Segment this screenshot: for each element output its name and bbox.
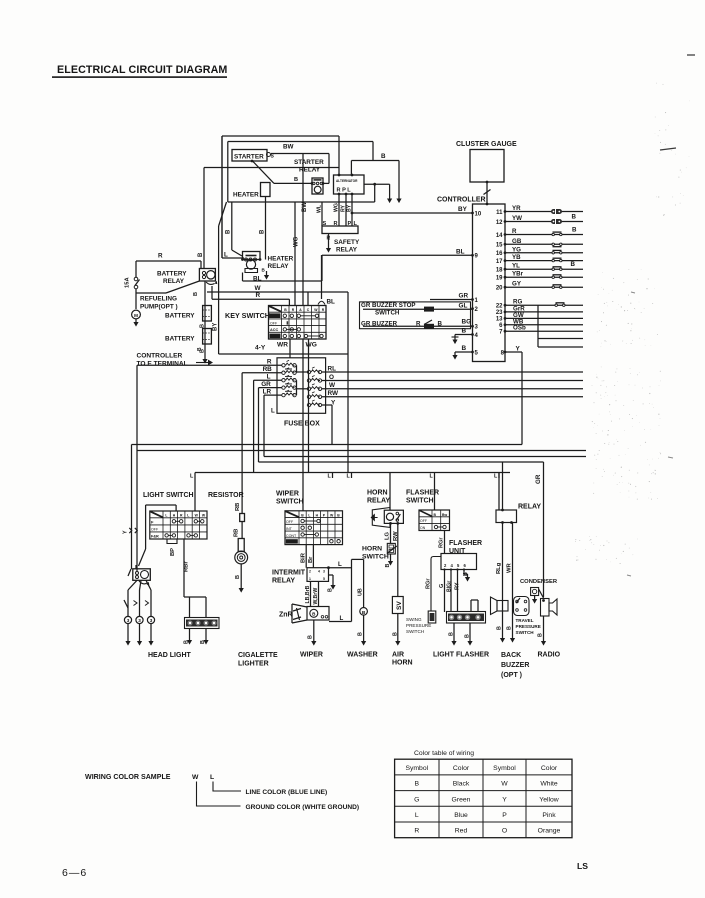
svg-text:FLASHER: FLASHER bbox=[449, 540, 482, 547]
ground (light flasher 2) bbox=[467, 641, 472, 646]
svg-text:B: B bbox=[362, 610, 366, 616]
svg-text:6—6: 6—6 bbox=[62, 867, 87, 879]
svg-text:3: 3 bbox=[150, 618, 153, 623]
svg-text:BATTERY: BATTERY bbox=[165, 336, 195, 343]
svg-text:4: 4 bbox=[451, 563, 454, 568]
svg-text:GB: GB bbox=[512, 238, 522, 245]
svg-text:R: R bbox=[158, 253, 163, 260]
node: coupler marks bbox=[129, 528, 131, 533]
svg-text:YBr: YBr bbox=[512, 271, 524, 278]
svg-text:3: 3 bbox=[323, 570, 325, 574]
svg-text:R P L: R P L bbox=[337, 188, 352, 194]
svg-text:OFF: OFF bbox=[286, 520, 294, 524]
svg-text:BiR: BiR bbox=[301, 552, 307, 563]
svg-text:STARTER: STARTER bbox=[234, 153, 264, 160]
svg-text:RGr: RGr bbox=[426, 578, 432, 589]
ground (battery minus) bbox=[202, 359, 207, 364]
svg-text:WG: WG bbox=[294, 236, 300, 247]
svg-text:15A: 15A bbox=[125, 277, 131, 288]
svg-text:B: B bbox=[198, 252, 204, 257]
svg-text:B: B bbox=[235, 575, 241, 579]
svg-text:B: B bbox=[312, 612, 316, 617]
svg-text:23: 23 bbox=[496, 310, 503, 316]
fuse F1..F5 left column bbox=[282, 364, 285, 367]
svg-text:AIR: AIR bbox=[392, 652, 404, 659]
svg-text:5: 5 bbox=[475, 350, 479, 356]
svg-text:INTERMIT: INTERMIT bbox=[272, 570, 306, 577]
svg-text:19: 19 bbox=[496, 276, 503, 282]
wire left long verticals bbox=[131, 445, 133, 570]
svg-text:YB: YB bbox=[512, 254, 521, 261]
wire bus 2 bbox=[137, 450, 586, 452]
wiper motor M-WIPER bbox=[292, 604, 307, 607]
svg-text:2: 2 bbox=[475, 307, 479, 313]
wire bus right extra bbox=[537, 305, 539, 347]
wire BP below light switch bbox=[167, 539, 177, 544]
wire WG key switch down bbox=[302, 339, 304, 511]
svg-text:L: L bbox=[494, 474, 498, 480]
svg-text:Color: Color bbox=[541, 765, 558, 772]
solenoid valve SV bbox=[392, 597, 403, 614]
wire B intermit relay ground bbox=[329, 574, 334, 576]
svg-text:HORN: HORN bbox=[362, 546, 382, 553]
wire B wiper motor ground bbox=[313, 620, 315, 641]
wire YB pin line bbox=[505, 260, 583, 262]
svg-text:ON: ON bbox=[420, 526, 426, 530]
svg-text:BATTERY: BATTERY bbox=[165, 313, 195, 320]
svg-text:22: 22 bbox=[496, 304, 503, 310]
svg-text:W: W bbox=[202, 514, 206, 518]
ground (intermit relay) bbox=[330, 585, 335, 590]
wire YG pin line bbox=[505, 252, 583, 254]
svg-text:H: H bbox=[173, 514, 176, 518]
svg-text:W,BrW: W,BrW bbox=[313, 588, 319, 605]
svg-text:RELAY: RELAY bbox=[163, 278, 185, 285]
ground (heater relay B) bbox=[264, 275, 269, 280]
svg-text:B: B bbox=[572, 226, 577, 233]
svg-text:W: W bbox=[329, 382, 336, 389]
svg-text:CONDENSER: CONDENSER bbox=[520, 579, 558, 585]
svg-text:HEAD LIGHT: HEAD LIGHT bbox=[148, 652, 192, 659]
svg-text:OFF: OFF bbox=[151, 527, 159, 531]
svg-text:WIPER: WIPER bbox=[300, 652, 323, 659]
wire BL heater relay to controller pin9 bbox=[242, 273, 244, 282]
wire RB fuse input long vertical to resistor bbox=[242, 372, 282, 374]
svg-text:GROUND COLOR (WHITE GROUND): GROUND COLOR (WHITE GROUND) bbox=[246, 804, 360, 811]
svg-text:L: L bbox=[347, 474, 351, 480]
wire L fuse input vertical bbox=[254, 379, 282, 381]
svg-text:RY: RY bbox=[455, 582, 461, 590]
svg-text:10: 10 bbox=[475, 211, 482, 217]
svg-text:B: B bbox=[262, 268, 266, 273]
ground (socket 2) bbox=[203, 640, 208, 645]
wire GY pin line bbox=[505, 286, 583, 288]
svg-text:ZnR: ZnR bbox=[279, 612, 293, 619]
svg-text:Green: Green bbox=[452, 796, 471, 803]
starter motor STARTER bbox=[232, 150, 267, 162]
svg-text:HORN: HORN bbox=[367, 490, 388, 497]
wire RGr to swing pressure switch bbox=[431, 557, 441, 612]
svg-text:WR: WR bbox=[277, 342, 288, 349]
wire WG drop to key switch bbox=[294, 202, 296, 306]
svg-text:B: B bbox=[538, 633, 544, 637]
svg-text:RELAY: RELAY bbox=[299, 167, 321, 174]
svg-text:WG: WG bbox=[306, 342, 317, 349]
svg-text:L: L bbox=[210, 774, 214, 781]
svg-text:WR: WR bbox=[507, 563, 513, 573]
svg-text:R: R bbox=[180, 514, 183, 518]
svg-text:CONTROLLER: CONTROLLER bbox=[137, 353, 183, 360]
svg-text:REFUELING: REFUELING bbox=[140, 296, 177, 303]
svg-text:15: 15 bbox=[496, 243, 503, 249]
svg-text:13: 13 bbox=[496, 317, 503, 323]
radio RADIO bbox=[541, 599, 550, 617]
svg-text:OFF: OFF bbox=[420, 519, 427, 523]
svg-text:B: B bbox=[572, 213, 577, 220]
svg-text:B: B bbox=[462, 345, 467, 352]
svg-text:B: B bbox=[260, 229, 266, 234]
back buzzer BZ2 bbox=[497, 601, 508, 612]
svg-text:BW: BW bbox=[283, 144, 294, 151]
svg-text:RW: RW bbox=[328, 390, 339, 397]
alternator U-ALT bbox=[334, 175, 365, 194]
svg-text:L: L bbox=[308, 513, 310, 517]
ground (head light 128) bbox=[125, 641, 130, 646]
svg-text:L: L bbox=[267, 373, 271, 380]
wire bottom boundary bbox=[195, 472, 510, 474]
svg-text:CONTROLLER: CONTROLLER bbox=[437, 197, 486, 204]
svg-text:SWITCH: SWITCH bbox=[516, 630, 535, 635]
ground (head light 139.5) bbox=[137, 641, 142, 646]
ground (safety relay) bbox=[326, 248, 331, 253]
svg-text:4-Y: 4-Y bbox=[255, 345, 266, 352]
svg-text:R: R bbox=[512, 228, 517, 235]
wire LG RW horn relay down bbox=[390, 523, 392, 543]
wire GB pin line bbox=[505, 243, 583, 245]
svg-text:16: 16 bbox=[496, 251, 503, 257]
svg-text:B: B bbox=[415, 781, 420, 788]
svg-text:O: O bbox=[329, 374, 334, 381]
svg-text:L: L bbox=[271, 408, 275, 415]
svg-text:LIGHTER: LIGHTER bbox=[238, 661, 269, 668]
svg-text:RELAY: RELAY bbox=[518, 504, 541, 511]
svg-text:HEATER: HEATER bbox=[233, 192, 259, 199]
cigarette lighter CL bbox=[238, 539, 244, 552]
svg-text:BUZZER: BUZZER bbox=[501, 662, 529, 669]
svg-text:B: B bbox=[393, 632, 399, 636]
svg-text:LIGHT SWITCH: LIGHT SWITCH bbox=[143, 492, 194, 499]
svg-text:RLg: RLg bbox=[496, 562, 502, 574]
svg-text:W: W bbox=[192, 774, 199, 781]
svg-text:12: 12 bbox=[496, 220, 503, 226]
wire RGr flasher switch down bbox=[444, 531, 446, 554]
svg-text:HORN: HORN bbox=[392, 660, 413, 667]
svg-text:LINE COLOR (BLUE LINE): LINE COLOR (BLUE LINE) bbox=[246, 789, 328, 796]
svg-text:B: B bbox=[497, 626, 503, 630]
ground (cig lighter) bbox=[239, 588, 244, 593]
wire B down to heater relay bbox=[231, 202, 233, 250]
svg-text:Orange: Orange bbox=[538, 828, 561, 835]
svg-text:B: B bbox=[197, 347, 203, 351]
wire YW pin line bbox=[505, 221, 583, 223]
svg-text:BL: BL bbox=[456, 248, 465, 255]
ground (air horn) bbox=[395, 641, 400, 646]
svg-text:BG: BG bbox=[462, 319, 472, 326]
svg-text:Y: Y bbox=[123, 530, 129, 534]
wire YR pin line bbox=[505, 211, 583, 213]
svg-text:CLUSTER GAUGE: CLUSTER GAUGE bbox=[456, 141, 517, 148]
wire B alternator side to grounds bbox=[373, 183, 376, 186]
svg-text:Y: Y bbox=[502, 796, 507, 803]
wire R pin line bbox=[505, 234, 583, 236]
svg-text:PUMP(OPT ): PUMP(OPT ) bbox=[140, 304, 178, 311]
wire RBr bbox=[183, 539, 185, 597]
svg-text:S: S bbox=[271, 154, 275, 160]
wire R fuse input from E terminal bbox=[137, 364, 282, 366]
wire RW to air horn bbox=[397, 523, 399, 596]
svg-text:PRESSURE: PRESSURE bbox=[406, 623, 431, 628]
svg-text:GR: GR bbox=[535, 474, 542, 484]
svg-text:LIGHT FLASHER: LIGHT FLASHER bbox=[433, 652, 489, 659]
svg-text:BATTERY: BATTERY bbox=[157, 271, 187, 278]
svg-text:RB: RB bbox=[235, 503, 241, 511]
svg-text:RGr: RGr bbox=[439, 537, 445, 548]
svg-text:RBr: RBr bbox=[184, 561, 190, 572]
svg-text:GR: GR bbox=[261, 381, 271, 388]
svg-text:B: B bbox=[358, 632, 364, 636]
svg-text:TO E TERMINAL: TO E TERMINAL bbox=[137, 361, 188, 368]
svg-text:Red: Red bbox=[455, 828, 468, 835]
svg-text:SWITCH: SWITCH bbox=[406, 498, 434, 505]
svg-text:Symbol: Symbol bbox=[405, 765, 428, 772]
wire WB pin line bbox=[505, 324, 583, 326]
wire RG pin line bbox=[505, 304, 583, 306]
wire BW vertical to key switch bbox=[302, 154, 304, 306]
svg-text:GL: GL bbox=[459, 302, 468, 309]
svg-text:5: 5 bbox=[323, 577, 325, 581]
svg-text:L: L bbox=[338, 561, 342, 568]
fuse F6..F10 right column bbox=[307, 370, 310, 373]
svg-text:HEATER: HEATER bbox=[268, 256, 294, 263]
wire W mid vertical bbox=[347, 292, 349, 473]
svg-text:STARTER: STARTER bbox=[294, 159, 324, 166]
svg-text:6: 6 bbox=[499, 323, 503, 329]
ground (condenser) bbox=[532, 599, 537, 604]
svg-text:1: 1 bbox=[309, 577, 311, 581]
svg-text:17: 17 bbox=[496, 259, 503, 265]
svg-text:RESISTOR: RESISTOR bbox=[208, 492, 244, 499]
svg-text:CIGALETTE: CIGALETTE bbox=[238, 652, 278, 659]
light flasher connector strip bbox=[447, 612, 486, 624]
svg-text:R: R bbox=[414, 828, 419, 835]
wire: outer top frame bbox=[222, 135, 339, 137]
svg-text:WL: WL bbox=[317, 204, 323, 213]
svg-text:RADIO: RADIO bbox=[538, 652, 561, 659]
svg-text:G: G bbox=[414, 796, 419, 803]
svg-text:B: B bbox=[337, 513, 340, 517]
svg-text:Symbol: Symbol bbox=[493, 765, 516, 772]
svg-text:L: L bbox=[430, 474, 434, 480]
svg-text:4: 4 bbox=[475, 333, 479, 339]
svg-text:LB,BrB: LB,BrB bbox=[305, 585, 311, 603]
buzzer group box bbox=[360, 302, 471, 329]
wire YL pin line bbox=[505, 268, 583, 270]
wire LB BrB / W BrW bbox=[310, 581, 312, 607]
svg-text:LS: LS bbox=[577, 861, 588, 871]
svg-text:BACK: BACK bbox=[501, 652, 521, 659]
svg-text:F&R: F&R bbox=[151, 534, 159, 538]
svg-text:B: B bbox=[449, 632, 455, 636]
ground (pump) bbox=[133, 322, 138, 327]
wire GrR pin line bbox=[505, 311, 583, 313]
svg-text:WIRING COLOR SAMPLE: WIRING COLOR SAMPLE bbox=[85, 773, 171, 781]
wire bus 3 (LR) bbox=[264, 456, 586, 458]
svg-text:A: A bbox=[299, 308, 302, 312]
svg-text:ACC: ACC bbox=[270, 328, 278, 332]
wire B battery feed to battery relay bbox=[204, 167, 339, 169]
svg-text:BlGr: BlGr bbox=[447, 581, 453, 592]
svg-text:2: 2 bbox=[444, 563, 447, 568]
svg-text:L: L bbox=[190, 474, 194, 480]
wire GW pin line bbox=[505, 317, 583, 319]
svg-text:YW: YW bbox=[512, 215, 522, 222]
ground (horn switch) bbox=[388, 561, 393, 566]
svg-text:GR BUZZER STOP: GR BUZZER STOP bbox=[361, 302, 416, 309]
svg-text:BY: BY bbox=[213, 323, 219, 331]
svg-text:3: 3 bbox=[138, 618, 141, 623]
svg-text:WASHER: WASHER bbox=[347, 652, 378, 659]
heater relay U-HR bbox=[243, 252, 261, 260]
svg-text:White: White bbox=[540, 781, 558, 788]
wire head light fan-out bbox=[128, 580, 137, 590]
svg-text:WG: WG bbox=[334, 203, 340, 212]
svg-text:R: R bbox=[292, 308, 295, 312]
svg-text:ALTERNATOR: ALTERNATOR bbox=[336, 179, 358, 183]
svg-text:3: 3 bbox=[127, 618, 130, 623]
wire fuse jumpers bbox=[296, 365, 298, 372]
svg-text:H: H bbox=[316, 513, 319, 517]
svg-text:W: W bbox=[330, 513, 334, 517]
svg-text:B: B bbox=[226, 229, 232, 234]
wire drops from boundary bbox=[194, 473, 196, 479]
svg-text:Yellow: Yellow bbox=[539, 796, 558, 803]
svg-text:4: 4 bbox=[318, 570, 320, 574]
wire B heater down bbox=[265, 197, 267, 254]
svg-text:B: B bbox=[200, 324, 206, 328]
svg-text:B: B bbox=[507, 626, 513, 630]
wire RLg WR relay down bbox=[502, 523, 504, 639]
svg-text:ELECTRICAL CIRCUIT DIAGRAM: ELECTRICAL CIRCUIT DIAGRAM bbox=[57, 64, 227, 76]
svg-text:Br: Br bbox=[308, 556, 314, 563]
wire B alternator to ground bbox=[350, 161, 352, 176]
svg-text:BW: BW bbox=[302, 202, 308, 212]
washer motor M-WASH bbox=[360, 608, 368, 616]
svg-text:O: O bbox=[502, 828, 507, 835]
wire B horn switch ground bbox=[390, 554, 392, 561]
connector strip (accessory socket) bbox=[184, 596, 206, 598]
svg-text:Blue: Blue bbox=[454, 812, 468, 819]
ground (wiper motor) bbox=[311, 641, 316, 646]
lamp HL3 bbox=[147, 616, 154, 623]
svg-text:B: B bbox=[462, 327, 467, 334]
wire R safety relay ground bbox=[328, 234, 330, 249]
svg-text:TRAVEL: TRAVEL bbox=[516, 618, 534, 623]
wire GR fuse input vertical bbox=[259, 387, 283, 389]
wire BL into key switch with hop bbox=[321, 255, 323, 299]
wire WR key switch to fuse box bbox=[289, 339, 291, 358]
swing pressure switch SW-SP bbox=[428, 611, 436, 623]
svg-text:SAFETY: SAFETY bbox=[334, 239, 360, 246]
svg-text:WIPER: WIPER bbox=[276, 491, 299, 498]
svg-text:W: W bbox=[314, 308, 318, 312]
svg-text:Bw: Bw bbox=[442, 513, 447, 517]
svg-text:OFF: OFF bbox=[270, 322, 278, 326]
wire B starter to relay coil bbox=[253, 161, 275, 183]
svg-text:OSb: OSb bbox=[513, 325, 526, 332]
svg-text:Black: Black bbox=[453, 781, 470, 788]
svg-text:SWITCH: SWITCH bbox=[375, 310, 400, 317]
svg-text:BL: BL bbox=[327, 299, 336, 306]
head light relay U-HL bbox=[133, 569, 151, 581]
svg-text:BY: BY bbox=[458, 206, 468, 213]
lamp HL1 bbox=[124, 616, 131, 623]
ground (socket 1) bbox=[187, 640, 192, 645]
wire washer feed bbox=[352, 558, 364, 560]
ground (head light 151) bbox=[148, 641, 153, 646]
svg-text:YG: YG bbox=[512, 246, 521, 253]
svg-text:W: W bbox=[255, 285, 262, 292]
svg-text:BP: BP bbox=[170, 548, 176, 556]
fuse box FB bbox=[277, 358, 326, 414]
svg-text:3: 3 bbox=[475, 325, 479, 331]
svg-text:B: B bbox=[308, 635, 314, 639]
svg-text:B: B bbox=[294, 177, 298, 183]
svg-text:BY: BY bbox=[347, 204, 353, 212]
svg-text:F: F bbox=[151, 519, 154, 524]
wire WL WG RY BY verticals to safety relay bbox=[321, 202, 323, 226]
svg-text:2: 2 bbox=[309, 570, 311, 574]
svg-text:RB: RB bbox=[234, 529, 240, 537]
svg-text:R: R bbox=[322, 308, 325, 312]
wire B light flasher grounds bbox=[453, 623, 455, 641]
svg-text:R: R bbox=[267, 359, 272, 366]
svg-text:LG: LG bbox=[385, 531, 391, 540]
wire bus Y horizontal bbox=[132, 444, 523, 446]
wire long horizontal y202 bbox=[228, 201, 375, 203]
svg-text:9: 9 bbox=[475, 254, 479, 260]
wire LR fuse input vertical bbox=[264, 394, 282, 396]
svg-text:L: L bbox=[187, 514, 189, 518]
svg-text:W: W bbox=[501, 781, 508, 788]
svg-text:L: L bbox=[328, 474, 332, 480]
svg-text:C: C bbox=[307, 308, 310, 312]
wire G BlGr RY B flasher unit outputs bbox=[444, 570, 446, 613]
svg-text:KEY SWITCH: KEY SWITCH bbox=[225, 311, 270, 320]
svg-text:20: 20 bbox=[496, 286, 503, 292]
ground (light flasher 1) bbox=[451, 641, 456, 646]
svg-text:LR: LR bbox=[263, 388, 272, 395]
svg-text:6: 6 bbox=[464, 563, 467, 568]
wire BW starter S to relay contact bbox=[271, 153, 329, 155]
svg-text:Color: Color bbox=[453, 765, 470, 772]
svg-text:R: R bbox=[256, 292, 261, 299]
svg-text:SWITCH: SWITCH bbox=[362, 554, 389, 561]
svg-text:SWITCH: SWITCH bbox=[406, 629, 424, 634]
svg-text:Pink: Pink bbox=[542, 812, 556, 819]
svg-text:M: M bbox=[134, 313, 138, 318]
ground (back buzzer 1) bbox=[500, 638, 505, 643]
svg-text:INT: INT bbox=[286, 527, 293, 531]
